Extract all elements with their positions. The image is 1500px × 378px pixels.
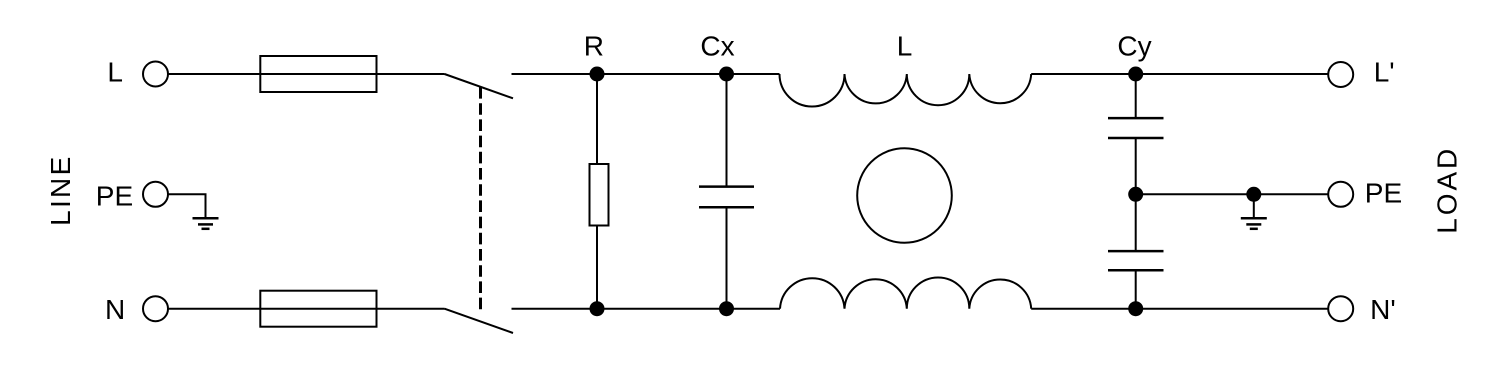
capacitor Cx plates xyxy=(699,187,754,208)
capacitor Cy2 plates xyxy=(1108,251,1164,270)
resistor R body xyxy=(590,164,609,226)
wire Cy midpoint to PE' terminal xyxy=(1136,193,1328,195)
svg-text:L: L xyxy=(897,31,913,62)
junction node at Cy top xyxy=(1128,67,1143,82)
resistor R branch wire (bottom) xyxy=(596,226,598,309)
svg-text:PE: PE xyxy=(1365,178,1402,209)
terminal PE (load side) xyxy=(1328,182,1353,207)
ganged-switch dashed link xyxy=(479,87,482,309)
capacitor Cx branch wire (bottom) xyxy=(726,207,728,309)
terminal L' xyxy=(1328,62,1353,87)
svg-text:LOAD: LOAD xyxy=(1431,146,1462,234)
wire L terminal to switch pivot (through fuse F1) xyxy=(168,73,444,75)
wire PE terminal to ground stub (line side) xyxy=(168,194,205,218)
terminal PE (line side) xyxy=(143,182,168,207)
fuse F2 body xyxy=(260,291,376,327)
switch blade (bottom pole) xyxy=(445,309,514,333)
resistor R branch wire (top) xyxy=(596,74,598,164)
inductor L top winding xyxy=(780,74,1032,107)
terminal N' xyxy=(1328,296,1353,321)
junction node at Cy bottom xyxy=(1128,301,1143,316)
capacitor Cy2 bottom wire xyxy=(1135,270,1137,309)
junction node at R bottom xyxy=(590,301,605,316)
svg-text:PE: PE xyxy=(96,180,133,211)
svg-text:L': L' xyxy=(1374,57,1395,88)
wire switch to R node to Cx node to choke (bottom rail) xyxy=(512,308,781,310)
capacitor Cx branch wire (top) xyxy=(726,74,728,187)
svg-text:Cy: Cy xyxy=(1117,31,1151,62)
junction node at Cy midpoint xyxy=(1128,187,1143,202)
wire choke to Cy node to N' terminal (bottom rail) xyxy=(1031,308,1328,310)
choke core xyxy=(857,148,952,243)
svg-text:R: R xyxy=(584,31,604,62)
junction node at Cx bottom xyxy=(719,301,734,316)
ground symbol (load side) xyxy=(1241,218,1267,229)
wire Cy1 to midpoint node to Cy2 xyxy=(1135,138,1137,251)
capacitor Cy1 plates xyxy=(1108,118,1164,138)
ground symbol (line side) xyxy=(193,218,219,229)
svg-text:LINE: LINE xyxy=(45,154,76,225)
ground stub wire (load side) xyxy=(1253,194,1255,218)
wire N terminal to switch pivot (through fuse F2) xyxy=(168,308,444,310)
junction node at PE ground stub xyxy=(1246,187,1261,202)
junction node at Cx top xyxy=(719,67,734,82)
switch blade (top pole) xyxy=(445,74,514,98)
junction node at R top xyxy=(590,67,605,82)
wire choke to Cy node to L' terminal (top rail) xyxy=(1031,73,1328,75)
inductor L bottom winding xyxy=(780,277,1031,308)
svg-text:Cx: Cx xyxy=(700,31,734,62)
fuse F1 body xyxy=(260,56,376,92)
svg-text:N': N' xyxy=(1370,294,1396,325)
svg-text:N: N xyxy=(105,294,125,325)
capacitor Cy1 top wire xyxy=(1135,74,1137,118)
wire switch to R node to Cx node to choke (top rail) xyxy=(512,73,780,75)
terminal N xyxy=(143,296,168,321)
terminal L xyxy=(143,62,168,87)
svg-text:L: L xyxy=(107,56,123,87)
